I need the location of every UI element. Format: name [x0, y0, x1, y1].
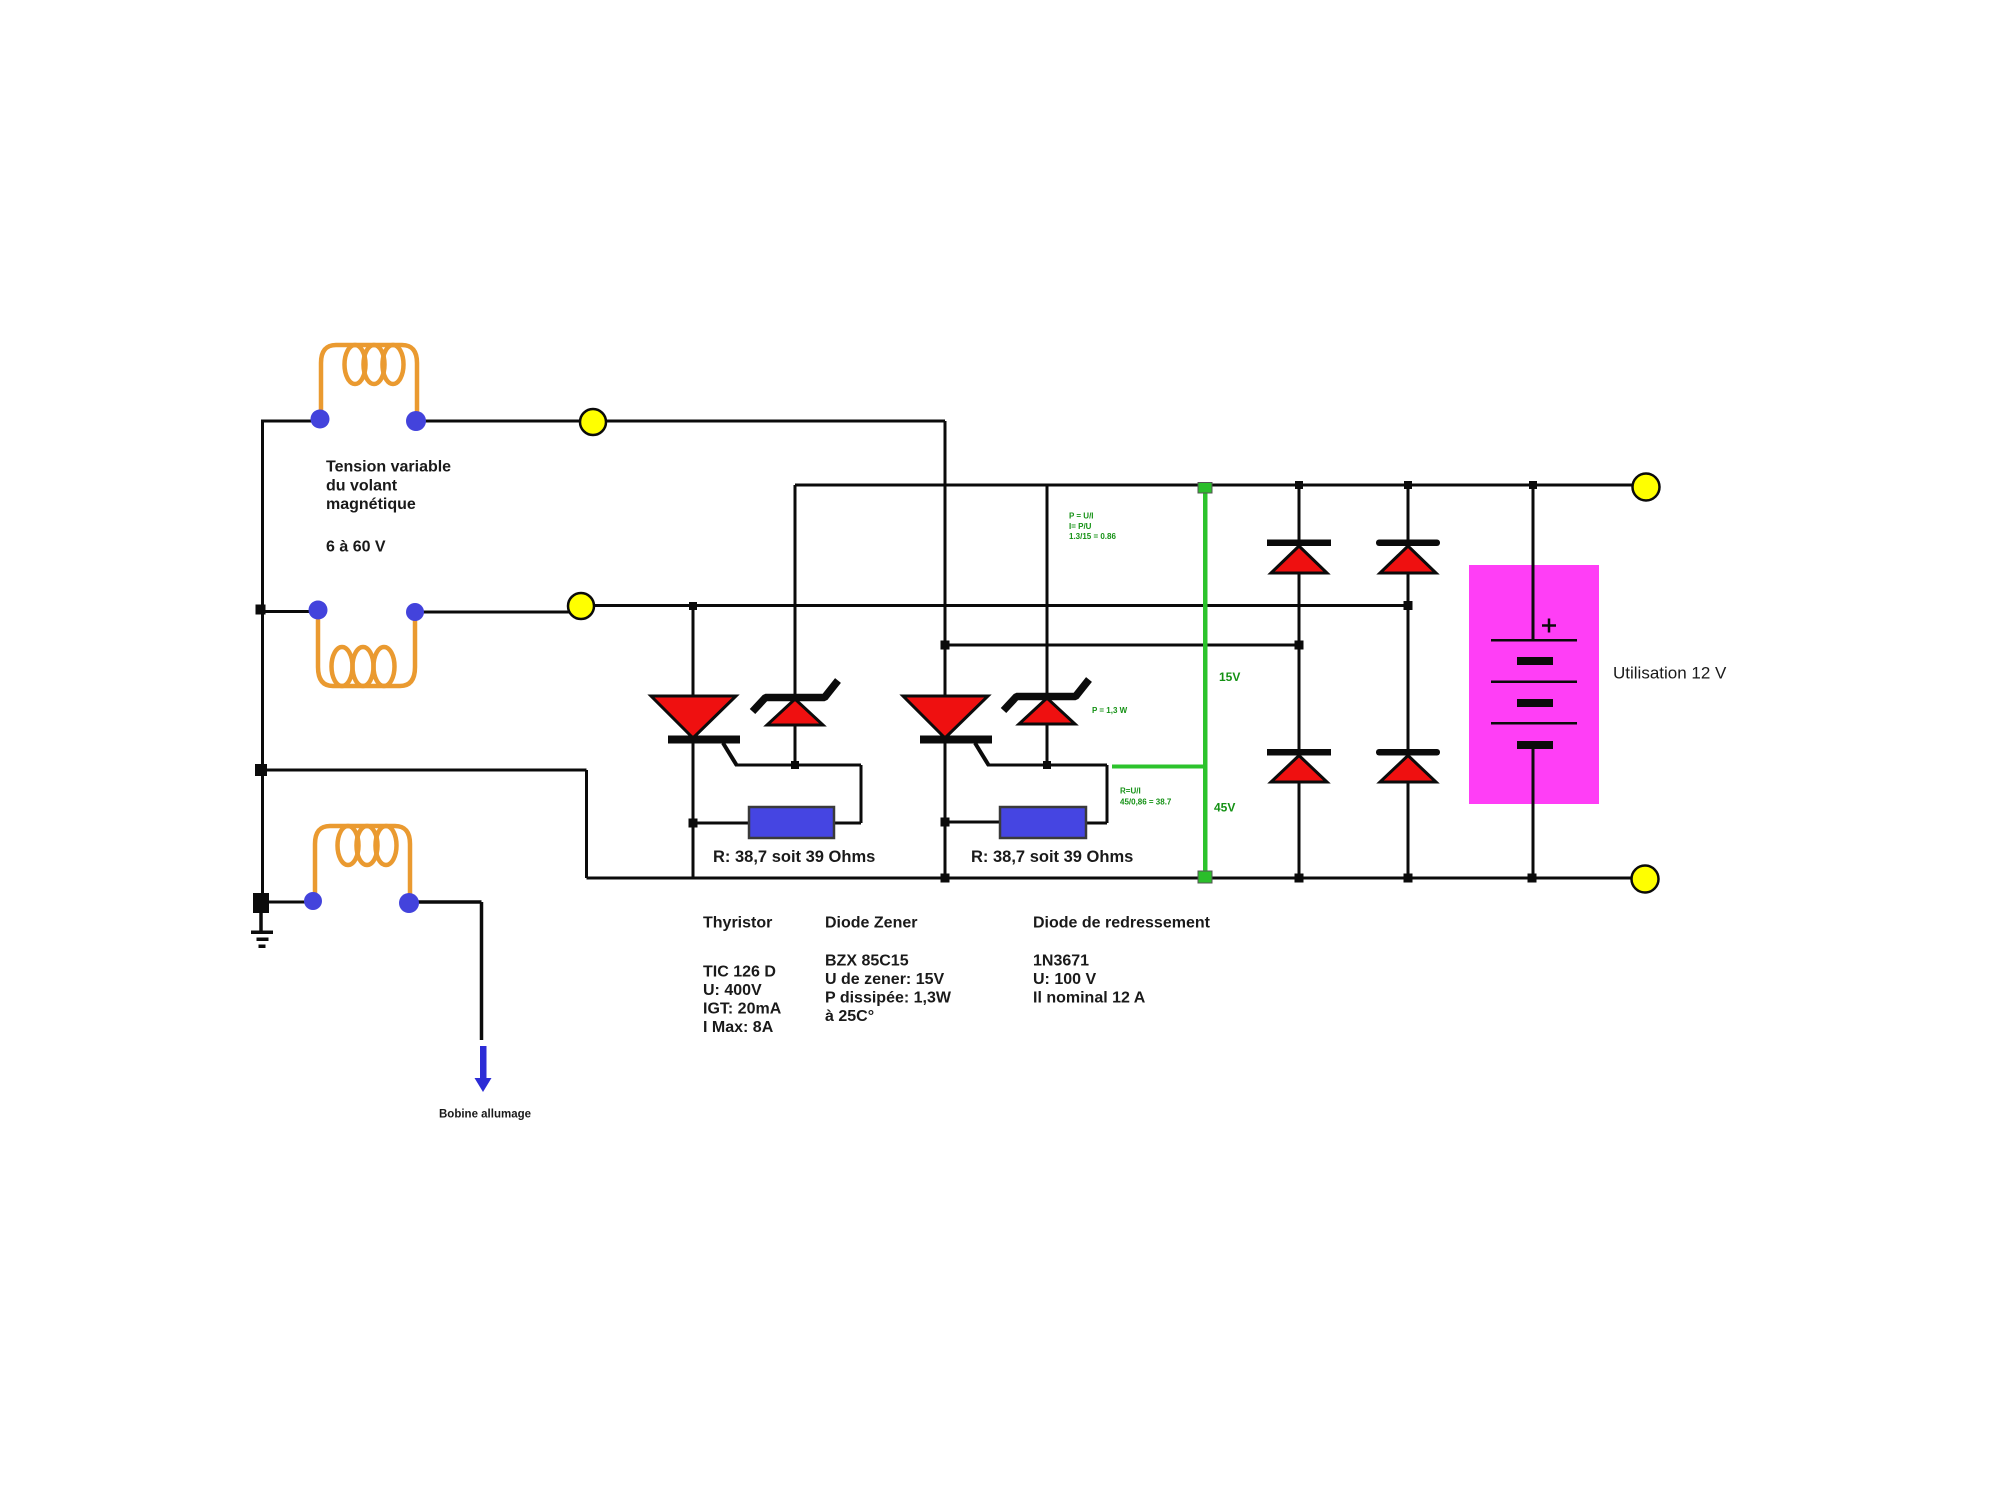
svg-text:I Max: 8A: I Max: 8A — [703, 1019, 774, 1036]
battery plate long 3 — [1491, 722, 1577, 725]
label Utilisation 12 V — [1613, 664, 1727, 683]
svg-text:6 à 60 V: 6 à 60 V — [326, 539, 386, 556]
svg-text:Tension variable: Tension variable — [326, 459, 451, 476]
green marker square bottom — [1198, 871, 1212, 883]
junction thyristor2 mid — [941, 641, 950, 650]
wire bottom bus — [587, 877, 1646, 880]
junction left-row3 branch — [255, 764, 267, 776]
svg-text:Thyristor: Thyristor — [703, 915, 772, 932]
junction thyristor1 top — [689, 602, 697, 610]
svg-text:R: 38,7 soit 39 Ohms: R: 38,7 soit 39 Ohms — [713, 848, 875, 866]
label green 45V — [1214, 801, 1235, 815]
wire zener2 column — [1046, 485, 1049, 765]
wire battery column bottom — [1532, 748, 1535, 878]
green measuring line horizontal — [1112, 765, 1205, 769]
wire row3 right to ignition coil — [409, 902, 482, 1040]
battery plate thick 3 — [1517, 741, 1553, 749]
battery plus sign — [1542, 619, 1556, 633]
test point T1 — [580, 409, 606, 435]
junction resistor2 left — [941, 818, 950, 827]
label green 15V — [1219, 670, 1240, 684]
svg-text:TIC 126 D: TIC 126 D — [703, 964, 776, 981]
label zener specs — [825, 953, 952, 1026]
wire third phase branch — [261, 770, 587, 878]
svg-text:U: 400V: U: 400V — [703, 982, 762, 999]
green measuring line vertical — [1203, 487, 1208, 877]
svg-text:magnétique: magnétique — [326, 496, 416, 513]
junction bottom bus thyristor2 — [941, 874, 950, 883]
label resistor R2 value — [971, 848, 1133, 866]
terminal dot L3 right — [399, 893, 419, 913]
svg-text:15V: 15V — [1219, 670, 1240, 684]
resistor R1 — [749, 807, 834, 838]
thyristor TH1 — [651, 696, 740, 765]
wire row2 left — [261, 610, 318, 613]
terminal dot L1 left — [311, 410, 330, 429]
wire bridge column left — [1298, 485, 1301, 878]
zener diode DZ2 — [1004, 680, 1090, 725]
junction bottom bus D2 — [1404, 874, 1413, 883]
svg-text:U de zener: 15V: U de zener: 15V — [825, 971, 944, 988]
label green formula P/I — [1069, 512, 1116, 542]
wire row1 right — [416, 420, 945, 423]
svg-text:1.3/15 = 0.86: 1.3/15 = 0.86 — [1069, 532, 1116, 541]
terminal dot L2 right — [406, 603, 424, 621]
wire left vertical bus — [261, 420, 264, 893]
ground symbol — [251, 893, 273, 948]
svg-text:Utilisation 12 V: Utilisation 12 V — [1613, 664, 1727, 683]
wire top bus — [795, 484, 1646, 487]
battery plate long 1 — [1491, 639, 1577, 642]
label Thyristor header — [703, 915, 772, 932]
svg-text:BZX 85C15: BZX 85C15 — [825, 953, 909, 970]
battery load box — [1469, 565, 1599, 804]
junction row2 D2 — [1404, 601, 1413, 610]
resistor R2 — [1000, 807, 1086, 838]
svg-text:à 25C°: à 25C° — [825, 1008, 874, 1025]
label tension variable — [326, 459, 451, 556]
diode D4 bottom-right — [1376, 749, 1440, 782]
svg-text:Il nominal 12 A: Il nominal 12 A — [1033, 990, 1146, 1007]
label Diode Zener header — [825, 915, 917, 932]
wire zener1 column — [794, 485, 797, 765]
ignition coil arrow — [475, 1046, 492, 1092]
svg-text:R: 38,7 soit 39 Ohms: R: 38,7 soit 39 Ohms — [971, 848, 1133, 866]
green marker square top — [1198, 483, 1212, 494]
battery plate thick 1 — [1517, 657, 1553, 665]
svg-text:du volant: du volant — [326, 478, 398, 495]
junction top bus battery — [1529, 481, 1537, 489]
terminal dot L3 left — [304, 892, 322, 910]
label thyristor specs — [703, 964, 782, 1037]
test point T4 — [1632, 866, 1659, 893]
svg-text:IGT: 20mA: IGT: 20mA — [703, 1001, 782, 1018]
svg-text:I= P/U: I= P/U — [1069, 522, 1092, 531]
battery wire inside box — [1532, 565, 1535, 804]
svg-text:P = 1,3 W: P = 1,3 W — [1092, 706, 1128, 715]
wire row2 right — [415, 606, 1408, 613]
junction left-row2 — [256, 605, 266, 615]
diode D3 bottom-left — [1267, 749, 1331, 782]
label Bobine allumage — [439, 1109, 531, 1121]
thyristor TH2 — [903, 696, 992, 765]
thyristor TH1 gate wire — [693, 765, 861, 823]
battery plate long 2 — [1491, 681, 1577, 684]
junction zener1 gate — [791, 761, 799, 769]
svg-text:1N3671: 1N3671 — [1033, 953, 1089, 970]
test point T3 — [1633, 474, 1660, 501]
thyristor TH2 gate wire — [945, 765, 1107, 823]
terminal dot L1 right — [406, 411, 426, 431]
coil L3 — [315, 826, 410, 901]
junction bottom bus D1 — [1295, 874, 1304, 883]
label green P=1,3W — [1092, 706, 1128, 715]
svg-text:45/0,86 = 38.7: 45/0,86 = 38.7 — [1120, 798, 1172, 807]
svg-text:Diode Zener: Diode Zener — [825, 915, 917, 932]
zener diode DZ1 — [753, 681, 839, 726]
svg-text:45V: 45V — [1214, 801, 1235, 815]
label green R=U/I — [1120, 787, 1172, 807]
junction bottom bus battery — [1528, 874, 1537, 883]
junction top bus D2 — [1404, 481, 1412, 489]
diode D1 top-left — [1267, 540, 1331, 574]
wire thyristor2 column — [944, 421, 947, 878]
label Diode de redressement header — [1033, 915, 1211, 932]
svg-text:Diode de redressement: Diode de redressement — [1033, 915, 1211, 932]
test point T2 — [568, 593, 594, 619]
svg-text:P dissipée: 1,3W: P dissipée: 1,3W — [825, 990, 952, 1007]
svg-text:P = U/I: P = U/I — [1069, 512, 1094, 521]
junction top bus D1 — [1295, 481, 1303, 489]
wire row1 left — [261, 420, 320, 423]
svg-text:R=U/I: R=U/I — [1120, 787, 1141, 796]
junction resistor1 left — [689, 819, 698, 828]
terminal dot L2 left — [309, 601, 328, 620]
wire row3 left — [269, 901, 313, 904]
coil L1 — [321, 345, 417, 421]
svg-text:U: 100 V: U: 100 V — [1033, 971, 1096, 988]
coil L2 — [318, 611, 415, 686]
junction mid D1 — [1295, 641, 1304, 650]
label rectifier diode specs — [1033, 953, 1146, 1007]
battery plate thick 2 — [1517, 699, 1553, 707]
junction zener2 gate — [1043, 761, 1051, 769]
wire battery column top — [1532, 485, 1535, 640]
svg-text:Bobine allumage: Bobine allumage — [439, 1109, 531, 1121]
diode D2 top-right — [1376, 540, 1440, 574]
wire mid line — [945, 644, 1298, 647]
wire bridge column right — [1407, 485, 1410, 878]
label resistor R1 value — [713, 848, 875, 866]
wire thyristor1 column — [692, 606, 695, 878]
